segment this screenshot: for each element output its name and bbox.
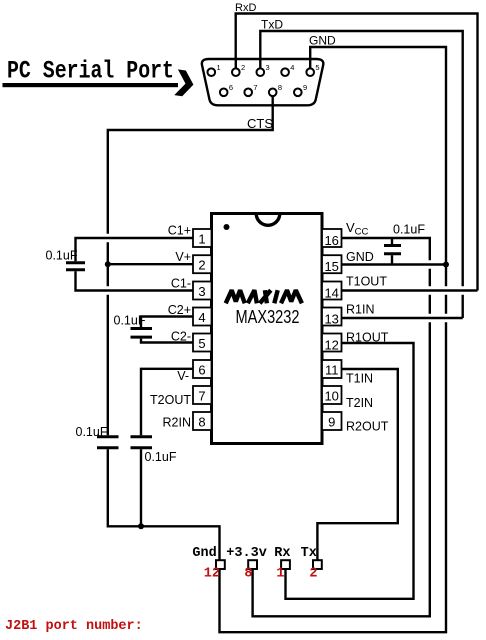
capacitor C1 0.1uF plates xyxy=(66,261,85,264)
U1 pin 5 box xyxy=(193,334,212,352)
U1 pin 15 box xyxy=(322,255,342,273)
wire T1IN pin11 down to Tx pad xyxy=(317,369,397,560)
svg-text:2: 2 xyxy=(309,567,317,582)
svg-text:7: 7 xyxy=(253,83,257,92)
DB9 pin 2 xyxy=(232,68,240,76)
svg-text:R2IN: R2IN xyxy=(163,416,191,430)
svg-text:C1-: C1- xyxy=(171,277,191,291)
svg-text:8: 8 xyxy=(244,567,252,582)
capacitor C2 0.1uF plates xyxy=(131,327,153,330)
U1 pin 2 box xyxy=(193,255,212,273)
svg-text:MAX3232: MAX3232 xyxy=(236,307,300,327)
U1 pin 14 box xyxy=(322,282,342,300)
wire R1IN pin13 to TxD vertical xyxy=(342,317,463,319)
svg-text:Rx: Rx xyxy=(274,546,290,561)
wire C5 bottom to ground rail xyxy=(140,449,142,526)
arrowhead xyxy=(174,69,195,97)
svg-text:GND: GND xyxy=(309,34,336,48)
U1 top edge over notch xyxy=(250,212,286,215)
svg-text:Gnd: Gnd xyxy=(192,546,216,561)
svg-text:15: 15 xyxy=(324,259,338,274)
U1 pin1 dot xyxy=(224,224,230,230)
svg-text:0.1uF: 0.1uF xyxy=(393,223,425,237)
wire RxD horizontal + drop to DB9 pin2 and right vertical to T1OUT xyxy=(236,14,478,291)
U1 notch xyxy=(256,214,280,226)
svg-text:J2B1 port number:: J2B1 port number: xyxy=(5,619,143,634)
svg-text:C2+: C2+ xyxy=(168,303,191,317)
svg-text:T2IN: T2IN xyxy=(346,396,373,410)
svg-text:R1IN: R1IN xyxy=(346,303,374,317)
svg-text:8: 8 xyxy=(198,415,205,430)
wire C1+ pin1 to cap C1 xyxy=(76,238,194,261)
svg-text:8: 8 xyxy=(278,83,282,92)
DB9 pin 3 xyxy=(257,68,265,76)
capacitor C3 0.1uF plates xyxy=(384,244,401,247)
MAXIM logo xyxy=(226,290,302,303)
svg-text:1: 1 xyxy=(217,63,221,72)
wire stub into DB9 pin2 xyxy=(235,58,237,68)
wire V+ pin2 to CTS line xyxy=(108,263,193,265)
svg-text:2: 2 xyxy=(241,63,245,72)
U1 pin 10 box xyxy=(322,386,342,404)
wire R1OUT pin12 down to Rx pad xyxy=(286,343,414,599)
svg-text:+3.3v: +3.3v xyxy=(226,546,267,561)
wire Vcc pin16 right, cap stub, down right side to +3.3v pad (gaps at crossings) xyxy=(253,238,430,616)
junction GND xyxy=(443,262,449,268)
svg-text:3: 3 xyxy=(198,284,205,299)
wire stub from DB9 pin8 (CTS) xyxy=(272,96,274,106)
svg-text:7: 7 xyxy=(198,389,205,404)
svg-text:0.1uF: 0.1uF xyxy=(145,450,177,464)
svg-text:12: 12 xyxy=(324,338,338,353)
U1 pin 16 box xyxy=(322,229,342,247)
connector J1 DB9 PC serial port outline xyxy=(202,59,324,105)
pad J2B1 Tx xyxy=(313,560,322,569)
U1 pin 12 box xyxy=(322,334,342,352)
svg-text:6: 6 xyxy=(229,83,233,92)
U1 pin 7 box xyxy=(193,386,212,404)
capacitor C5 0.1uF plates xyxy=(131,435,153,438)
svg-text:PC Serial Port: PC Serial Port xyxy=(7,57,174,86)
U1 pin 8 box xyxy=(193,412,212,430)
svg-text:0.1uF: 0.1uF xyxy=(114,314,146,328)
svg-text:T1OUT: T1OUT xyxy=(346,275,387,289)
svg-text:9: 9 xyxy=(328,415,335,430)
svg-text:5: 5 xyxy=(198,336,205,351)
svg-text:0.1uF: 0.1uF xyxy=(76,425,108,439)
DB9 pin 4 xyxy=(281,68,289,76)
svg-text:3: 3 xyxy=(266,63,270,72)
wire TxD horizontal + drop to DB9 pin3 and right vertical to R1IN (gap at T1OUT crossing) xyxy=(260,31,462,318)
IC U1 MAX3232 body xyxy=(212,214,323,444)
svg-text:6: 6 xyxy=(198,363,205,378)
wire C1- cap C1 to pin3 xyxy=(76,271,194,290)
U1 pin 4 box xyxy=(193,308,212,326)
capacitor C4 0.1uF plates (on CTS/V+ line) xyxy=(97,435,119,438)
svg-text:1: 1 xyxy=(198,232,205,247)
wire C3 bottom to GND line xyxy=(391,255,393,264)
wire GND from DB9 pin5 down right side to bottom (gaps at T1OUT,R1IN crossings) xyxy=(220,47,447,632)
U1 pin 11 box xyxy=(322,360,342,378)
svg-text:Tx: Tx xyxy=(301,546,317,561)
DB9 pin 5 xyxy=(306,68,314,76)
svg-text:13: 13 xyxy=(324,312,338,327)
svg-text:4: 4 xyxy=(198,310,205,325)
wire CTS from DB9 pin8 down, left, long vertical (gaps at C1+,C1- crossings, series cap) to bottom rail, to Gnd pad xyxy=(108,96,273,560)
wire stub into DB9 pin3 xyxy=(259,58,261,68)
svg-text:4: 4 xyxy=(290,63,294,72)
wire T1OUT pin14 to RxD vertical xyxy=(342,289,478,291)
svg-text:TxD: TxD xyxy=(261,18,283,32)
pad J2B1 Gnd xyxy=(216,560,225,569)
DB9 pin 6 xyxy=(220,89,228,97)
svg-text:0.1uF: 0.1uF xyxy=(46,249,78,263)
pad J2B1 Rx xyxy=(281,560,290,569)
junction V+ xyxy=(105,261,111,267)
DB9 pin 9 xyxy=(294,89,302,97)
wire C2+ pin4 to cap C2 xyxy=(141,317,193,328)
svg-text:T2OUT: T2OUT xyxy=(150,393,191,407)
wire V- pin6 left and down to cap C5 xyxy=(141,369,193,435)
DB9 pin 8 xyxy=(269,89,277,97)
svg-text:R2OUT: R2OUT xyxy=(346,420,389,434)
svg-text:RxD: RxD xyxy=(235,2,256,14)
svg-text:14: 14 xyxy=(324,286,338,301)
U1 pin 9 box xyxy=(322,412,342,430)
svg-text:T1IN: T1IN xyxy=(346,372,373,386)
wire stub into DB9 pin5 xyxy=(309,58,311,68)
svg-text:10: 10 xyxy=(324,389,338,404)
svg-text:V+: V+ xyxy=(175,250,191,264)
pad J2B1 +3.3v xyxy=(248,560,257,569)
svg-text:1: 1 xyxy=(276,567,284,582)
U1 pin 13 box xyxy=(322,308,342,326)
svg-text:2: 2 xyxy=(198,258,205,273)
arrow underline pointing at DB9 xyxy=(3,83,179,87)
junction C5/rail xyxy=(138,523,144,529)
U1 pin 1 box xyxy=(193,229,212,247)
svg-text:11: 11 xyxy=(325,363,339,378)
capacitor C3 0.1uF stub from Vcc xyxy=(391,238,393,244)
svg-text:CTS: CTS xyxy=(247,116,273,131)
wire GND pin15 to GND vertical xyxy=(342,263,447,265)
svg-text:12: 12 xyxy=(204,567,220,582)
svg-text:5: 5 xyxy=(315,63,319,72)
svg-text:16: 16 xyxy=(324,233,338,248)
DB9 pin 7 xyxy=(244,89,252,97)
DB9 pin 1 xyxy=(208,68,216,76)
svg-text:V-: V- xyxy=(177,369,189,383)
U1 pin 6 box xyxy=(193,360,212,378)
svg-text:C1+: C1+ xyxy=(168,224,191,238)
svg-text:9: 9 xyxy=(303,83,307,92)
U1 pin 3 box xyxy=(193,282,212,300)
svg-text:GND: GND xyxy=(346,250,374,264)
wire C2- cap C2 to pin5 xyxy=(141,339,193,343)
